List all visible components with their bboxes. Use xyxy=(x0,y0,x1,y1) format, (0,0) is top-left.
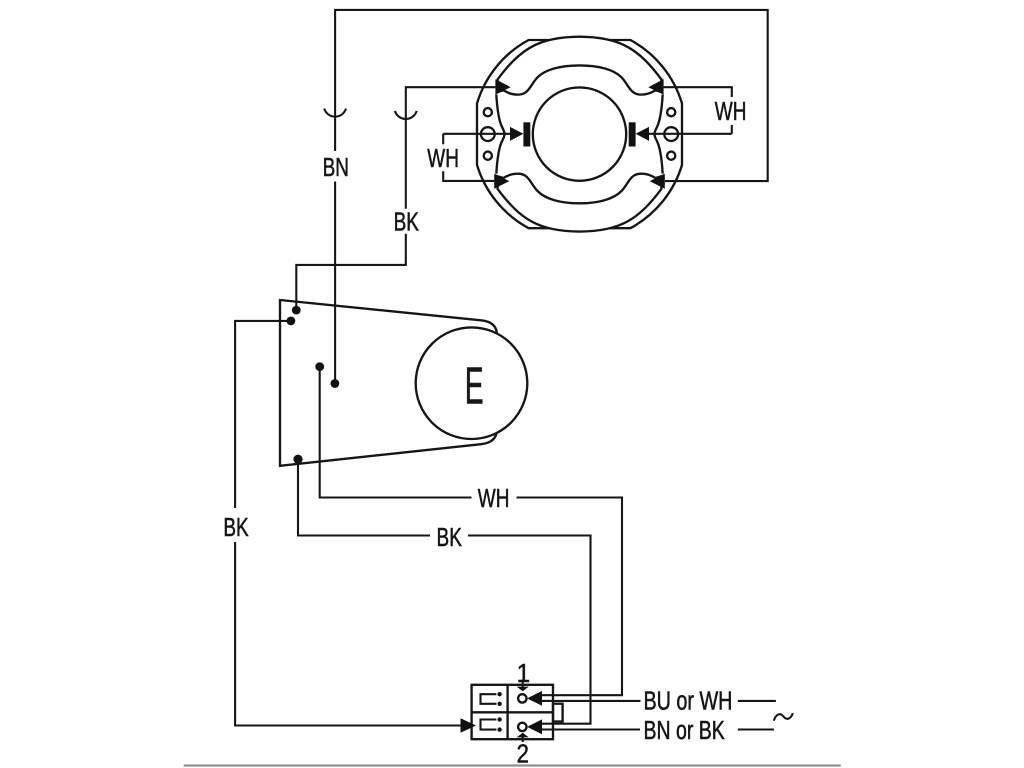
svg-text:BN or BK: BN or BK xyxy=(644,715,726,744)
svg-text:WH: WH xyxy=(478,483,510,513)
svg-text:BU or WH: BU or WH xyxy=(644,686,733,715)
svg-text:2: 2 xyxy=(517,740,529,768)
svg-text:BK: BK xyxy=(394,207,419,237)
svg-text:BK: BK xyxy=(223,512,248,542)
svg-text:1: 1 xyxy=(517,659,530,688)
svg-text:BN: BN xyxy=(323,152,349,182)
svg-text:BK: BK xyxy=(437,522,462,552)
svg-text:WH: WH xyxy=(715,96,747,126)
svg-text:E: E xyxy=(465,356,484,414)
svg-text:WH: WH xyxy=(427,143,459,173)
